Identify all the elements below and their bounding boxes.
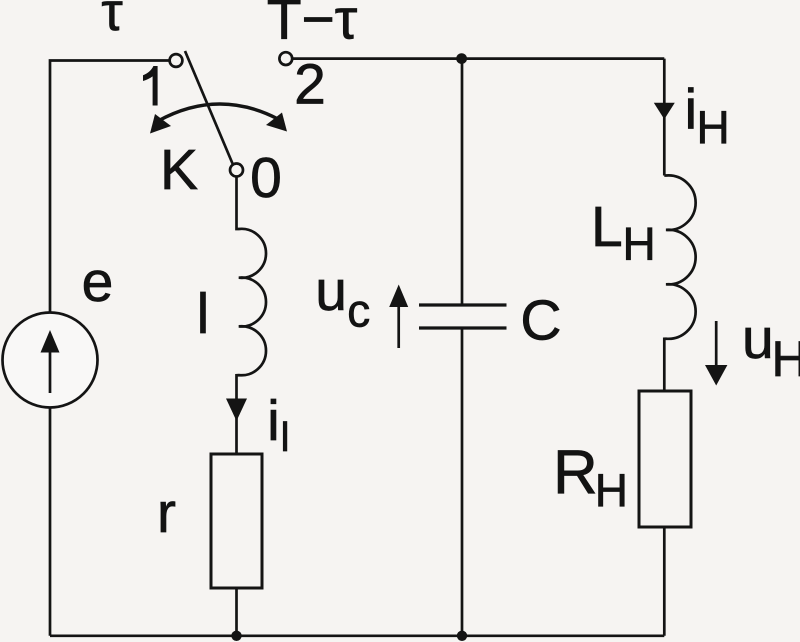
svg-text:l: l (280, 414, 289, 460)
svg-text:e: e (82, 250, 114, 314)
junction dot bottom of r branch (231, 631, 241, 641)
voltage arrow u_c (389, 285, 408, 349)
switch K arm (185, 51, 233, 164)
switch pole contact 0 (230, 164, 243, 177)
switch contact 1 (170, 54, 183, 67)
svg-text:R: R (553, 439, 598, 508)
resistor R_H (639, 391, 691, 527)
svg-text:C: C (520, 289, 561, 353)
wire: resistor R_H to bottom rail (663, 527, 666, 636)
svg-text:i: i (684, 78, 697, 142)
wire: left rail bottom segment (49, 407, 52, 636)
svg-text:c: c (347, 285, 370, 337)
voltage arrow u_H (705, 321, 727, 386)
svg-text:H: H (697, 102, 730, 154)
wire: right branch vertical top (663, 59, 666, 176)
resistor r (211, 454, 262, 588)
source e (3, 313, 98, 408)
svg-text:H: H (772, 331, 800, 387)
wire: resistor r to bottom rail (235, 588, 238, 636)
inductor L_H (664, 175, 695, 391)
svg-text:u: u (315, 259, 347, 323)
junction dot top capacitor node (456, 53, 467, 64)
current arrow i_l on wire (226, 399, 247, 422)
svg-text:i: i (267, 389, 280, 453)
svg-text:H: H (595, 465, 628, 517)
svg-text:T−τ: T−τ (267, 0, 358, 52)
label 1 (143, 66, 158, 106)
svg-text:K: K (160, 138, 198, 202)
wire: capacitor bottom lead (461, 330, 464, 636)
switch contact 2 (279, 52, 292, 65)
wire: left rail top segment (50, 61, 170, 314)
current arrow i_H on wire (654, 103, 675, 119)
wire: middle branch vertical from top node to capacitor (461, 59, 464, 304)
capacitor C (419, 305, 507, 328)
svg-text:2: 2 (294, 53, 326, 117)
svg-text:r: r (157, 481, 176, 545)
svg-text:0: 0 (250, 146, 282, 210)
svg-text:u: u (742, 307, 774, 371)
svg-text:l: l (197, 282, 210, 346)
svg-text:H: H (623, 218, 656, 270)
svg-text:τ: τ (101, 0, 122, 42)
svg-text:L: L (591, 195, 623, 259)
junction dot bottom capacitor node (457, 631, 467, 641)
wire: bottom rail (50, 634, 664, 637)
switch throw arrow (curved, two heads) (150, 104, 287, 134)
wire: top rail from contact 2 to right branch (292, 57, 664, 60)
inductor l (237, 176, 267, 454)
